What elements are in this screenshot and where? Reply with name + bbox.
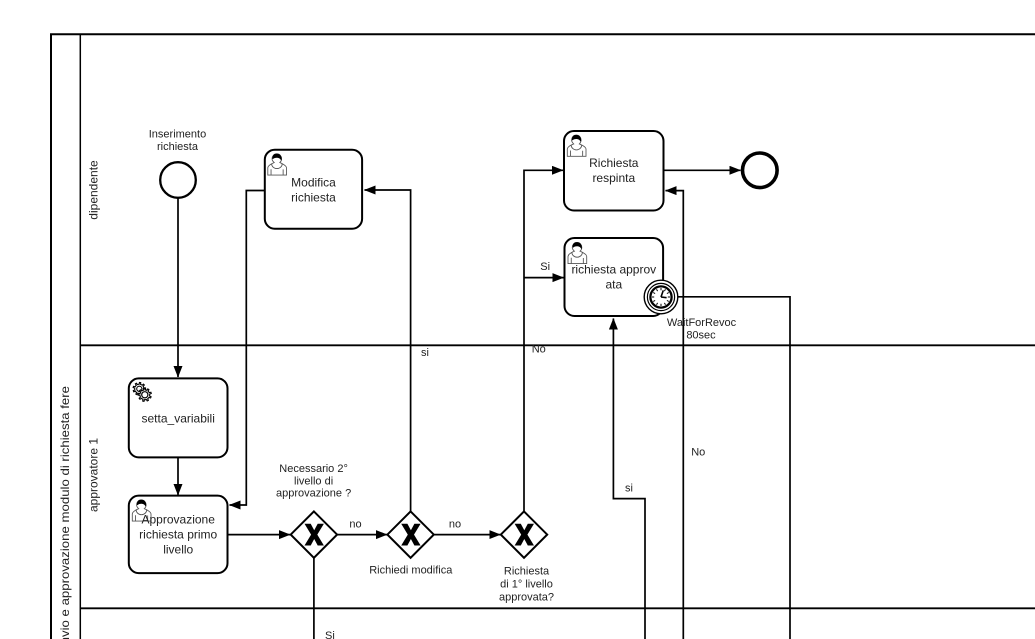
- svg-text:Approvazione: Approvazione: [142, 513, 216, 527]
- svg-text:Inserimento: Inserimento: [149, 129, 206, 141]
- svg-text:Si: Si: [540, 261, 550, 273]
- label Inserimento richiesta: [149, 129, 206, 154]
- label WaitForRevoc 80sec: [667, 317, 737, 342]
- svg-text:Richiesta: Richiesta: [504, 565, 550, 577]
- label Richiesta di 1° livello approvata?: [499, 565, 554, 603]
- wire Richiesta respinta -> end event: [664, 169, 741, 171]
- user task Modifica richiesta: [265, 150, 362, 229]
- wire setta_variabili -> Approvazione richiesta primo livello: [177, 457, 179, 495]
- service task setta_variabili: [129, 378, 228, 457]
- user task Approvazione richiesta primo livello: [129, 496, 228, 573]
- svg-text:No: No: [532, 343, 546, 355]
- svg-text:richiesta: richiesta: [291, 191, 336, 205]
- wire G1 -> G2 "no": [337, 534, 387, 536]
- timer boundary event WaitForRevoc: [644, 280, 678, 314]
- svg-text:di 1° livello: di 1° livello: [500, 579, 553, 591]
- svg-text:Richiedi modifica: Richiedi modifica: [369, 565, 453, 577]
- svg-text:richiesta primo: richiesta primo: [139, 528, 217, 542]
- svg-text:Necessario 2°: Necessario 2°: [279, 463, 348, 475]
- wire from lane 3 up -> Richiesta respinta right edge "No": [666, 191, 684, 639]
- svg-text:livello di: livello di: [294, 475, 333, 487]
- gear small: [133, 383, 145, 396]
- svg-text:WaitForRevoc: WaitForRevoc: [667, 317, 737, 329]
- lane divider dipendente / approvatore 1: [80, 344, 1035, 346]
- svg-text:ata: ata: [605, 278, 622, 292]
- svg-text:approvazione ?: approvazione ?: [276, 488, 351, 500]
- label Necessario 2° livello di approvazione ?: [276, 463, 351, 500]
- svg-text:livello: livello: [163, 543, 193, 557]
- svg-text:approvata?: approvata?: [499, 591, 554, 603]
- wire start event -> setta_variabili: [177, 198, 179, 377]
- svg-text:richiesta: richiesta: [157, 141, 199, 153]
- wire from lane 3 up -> richiesta approvata bottom "si" (with jog): [613, 319, 645, 639]
- user task richiesta approvata: [565, 238, 664, 316]
- user task Richiesta respinta: [564, 131, 664, 211]
- svg-text:approvatore 1: approvatore 1: [86, 438, 100, 512]
- svg-text:Si: Si: [325, 630, 335, 639]
- wire branch -> richiesta approvata "Si": [524, 277, 564, 279]
- wire Modifica richiesta -> Approvazione (left, down, into right edge): [230, 191, 265, 506]
- svg-text:no: no: [449, 519, 461, 531]
- gateway G1 exclusive (Necessario 2° livello): [291, 511, 337, 557]
- svg-text:Modifica: Modifica: [291, 176, 336, 190]
- wire G3 -> Richiesta respinta "No" (up): [524, 170, 563, 511]
- svg-text:si: si: [625, 483, 633, 495]
- svg-text:No: No: [691, 446, 705, 458]
- svg-text:no: no: [349, 519, 361, 531]
- end event: [743, 153, 778, 188]
- gateway G3 exclusive (Richiesta di 1° livello approvata?): [501, 511, 547, 557]
- gear big: [138, 388, 151, 401]
- svg-text:si: si: [421, 347, 429, 359]
- start event "Inserimento richiesta": [160, 162, 196, 198]
- wire Approvazione -> gateway G1: [228, 534, 291, 536]
- gateway G2 exclusive (Richiedi modifica): [387, 511, 433, 557]
- svg-text:Richiesta: Richiesta: [589, 156, 639, 170]
- wire timer WaitForRevoc -> down to lane 3: [678, 297, 790, 639]
- svg-text:dipendente: dipendente: [86, 160, 100, 220]
- svg-text:setta_variabili: setta_variabili: [142, 411, 215, 425]
- wire G1 "Si" down to lane 3: [313, 558, 315, 639]
- svg-text:respinta: respinta: [592, 171, 635, 185]
- lane divider approvatore 1 / approvatore 2: [80, 607, 1035, 609]
- wire G2 -> G3 "no": [434, 534, 501, 536]
- svg-text:80sec: 80sec: [686, 330, 716, 342]
- svg-text:richiesta approv: richiesta approv: [571, 263, 656, 277]
- wire G2 -> Modifica richiesta "si" (up): [365, 190, 411, 511]
- svg-text:Invio e approvazione modulo di: Invio e approvazione modulo di richiesta…: [58, 386, 72, 639]
